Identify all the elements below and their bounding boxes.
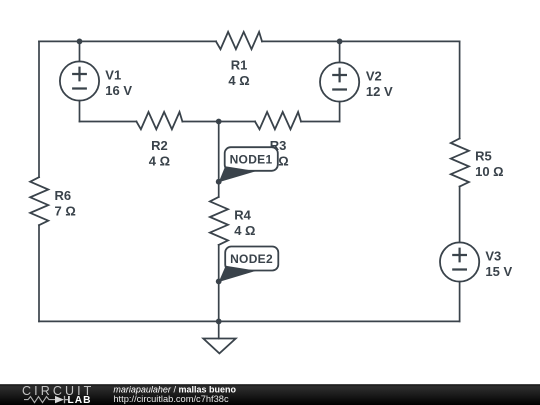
wire top left segment — [39, 40, 216, 42]
node NODE1 junction dot (middle wire) — [216, 119, 222, 125]
wire top right segment — [262, 40, 460, 42]
svg-text:10 Ω: 10 Ω — [475, 164, 504, 179]
svg-text:LAB: LAB — [68, 395, 92, 405]
resistor R6 — [30, 177, 48, 225]
wire bottom — [39, 320, 460, 322]
wire V2 top lead — [339, 41, 341, 62]
svg-text:http://circuitlab.com/c7hf38c: http://circuitlab.com/c7hf38c — [113, 394, 229, 404]
resistor R5 — [451, 139, 469, 187]
wire center vertical upper — [218, 122, 220, 197]
svg-text:4 Ω: 4 Ω — [149, 154, 170, 169]
svg-text:R4: R4 — [234, 208, 251, 223]
wire V2 bottom lead — [339, 102, 341, 122]
svg-text:4 Ω: 4 Ω — [234, 223, 255, 238]
svg-text:NODE2: NODE2 — [230, 252, 273, 266]
node NODE2 flag — [219, 247, 279, 283]
node ground junction dot (bottom wire) — [216, 319, 222, 325]
footer bar — [0, 384, 540, 405]
voltage source V3 — [440, 242, 479, 281]
svg-text:4 Ω: 4 Ω — [228, 73, 249, 88]
node NODE1 flag anchor dot — [216, 179, 222, 185]
wire left vertical lower — [38, 225, 40, 321]
wire middle left segment — [80, 121, 137, 123]
wire right vertical upper — [459, 41, 461, 138]
svg-text:R5: R5 — [475, 148, 492, 163]
wire V1 bottom lead — [79, 101, 81, 122]
svg-text:V2: V2 — [366, 69, 382, 84]
ground stem — [218, 321, 220, 338]
wire middle right segment — [301, 121, 340, 123]
svg-text:R2: R2 — [151, 138, 168, 153]
ground — [203, 339, 235, 354]
logo schematic doodle: wire — [24, 397, 55, 403]
logo diode — [55, 396, 64, 403]
wire center vertical lower — [218, 245, 220, 322]
node B junction dot (V2 top) — [337, 39, 343, 45]
svg-text:12 V: 12 V — [366, 84, 393, 99]
svg-text:15 V: 15 V — [485, 264, 512, 279]
resistor R3 — [255, 112, 301, 129]
svg-text:V1: V1 — [105, 68, 121, 83]
wire right bottom — [459, 282, 461, 322]
svg-text:7 Ω: 7 Ω — [55, 203, 76, 218]
resistor R1 — [216, 32, 262, 49]
svg-text:R1: R1 — [231, 58, 248, 73]
svg-text:R6: R6 — [55, 188, 72, 203]
node A junction dot (V1 top) — [77, 39, 83, 45]
svg-text:16 V: 16 V — [105, 83, 132, 98]
voltage source V1 — [60, 61, 99, 100]
node NODE2 flag anchor dot — [216, 279, 222, 285]
svg-text:NODE1: NODE1 — [230, 153, 273, 167]
node NODE1 flag — [219, 147, 278, 182]
wire left vertical upper — [38, 41, 40, 177]
wire V1 top lead — [79, 41, 81, 61]
svg-text:V3: V3 — [485, 249, 501, 264]
voltage source V2 — [320, 62, 359, 101]
wire right middle — [459, 187, 461, 243]
wire middle center segment — [182, 121, 255, 123]
resistor R2 — [136, 112, 182, 129]
resistor R4 — [210, 197, 228, 245]
